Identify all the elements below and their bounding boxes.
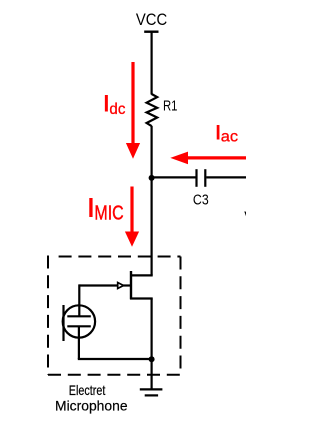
svg-text:dc: dc <box>109 101 125 118</box>
svg-text:R1: R1 <box>163 98 178 115</box>
svg-text:v: v <box>244 207 246 224</box>
svg-text:Electret: Electret <box>69 382 106 398</box>
svg-text:VCC: VCC <box>136 11 168 29</box>
svg-text:Microphone: Microphone <box>55 398 128 414</box>
svg-text:MIC: MIC <box>94 202 123 224</box>
svg-text:C3: C3 <box>193 192 209 209</box>
svg-text:ac: ac <box>221 128 239 145</box>
